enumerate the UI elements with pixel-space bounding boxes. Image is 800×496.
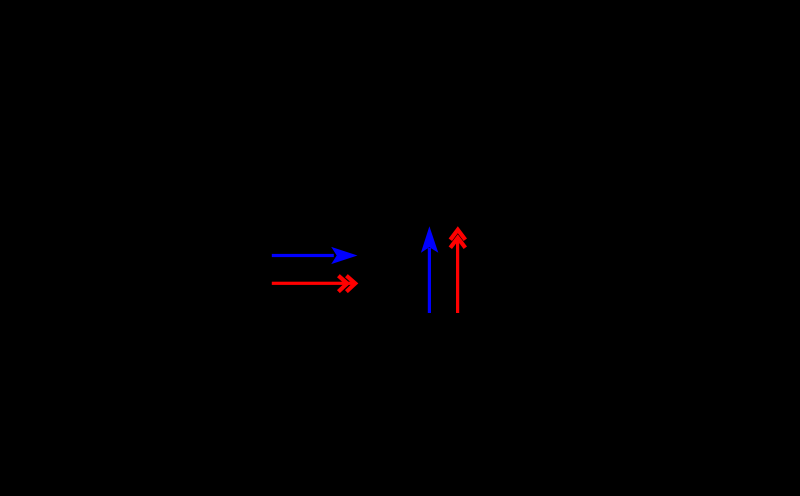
blue vertical vector v: shaft	[428, 248, 431, 313]
red horizontal vector a: shaft	[272, 282, 354, 285]
red horizontal vector a: inner chevron head	[338, 276, 347, 292]
blue horizontal vector v: shaft	[272, 254, 334, 257]
red vertical vector a: inner chevron head	[450, 238, 465, 248]
blue vertical vector v: arrowhead	[421, 226, 438, 252]
red horizontal vector a: outer chevron head	[346, 276, 355, 292]
red vertical vector a: shaft	[456, 239, 459, 313]
red vertical vector a: outer chevron head	[450, 230, 465, 240]
blue horizontal vector v: arrowhead	[331, 247, 357, 264]
